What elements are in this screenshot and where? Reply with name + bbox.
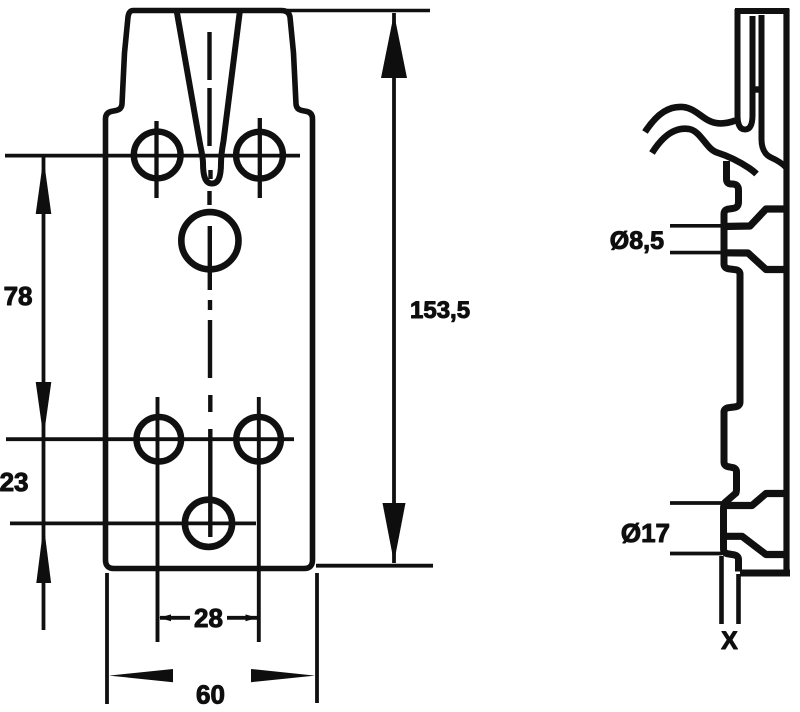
hole H4 lower-left circle bbox=[137, 417, 182, 462]
svg-text:Ø17: Ø17 bbox=[621, 518, 670, 548]
extension line top for 153,5 bbox=[283, 9, 430, 13]
arrow up at 524 bbox=[36, 525, 51, 583]
collar upper lip of hole 17 bbox=[723, 494, 787, 506]
datum line through top holes bbox=[5, 154, 300, 158]
hole H1 top-left circle bbox=[134, 132, 181, 179]
hole H3 middle circle bbox=[181, 212, 238, 269]
svg-text:28: 28 bbox=[194, 603, 223, 633]
collar lower lip of hole 8,5 bbox=[722, 253, 788, 270]
side view hem crossbar bbox=[751, 86, 764, 92]
arrow down at 562 bbox=[383, 503, 406, 563]
extension lines for 28 bbox=[158, 397, 259, 642]
leader lines for 17 bbox=[670, 503, 722, 554]
datum line through bottom hole bbox=[10, 522, 256, 526]
hole H6 bottom circle bbox=[185, 500, 232, 547]
side view hem fold left wall with U-return bbox=[738, 9, 753, 130]
side view spine with jogs bbox=[724, 161, 741, 572]
svg-text:23: 23 bbox=[0, 467, 29, 497]
hole H5 lower-right circle bbox=[236, 417, 281, 462]
side view top edge bbox=[735, 8, 789, 14]
thickness extension lines X bbox=[722, 556, 739, 624]
dimension line 78/23 vertical bbox=[42, 157, 46, 630]
svg-text:Ø8,5: Ø8,5 bbox=[610, 227, 664, 255]
extension lines for 60 bbox=[107, 573, 317, 704]
svg-text:153,5: 153,5 bbox=[410, 297, 470, 324]
side view inner fold line B with sweep bbox=[762, 15, 786, 167]
arrow down at 438 bbox=[36, 382, 52, 438]
arrow up at 13 bbox=[381, 14, 407, 79]
arrow up at 157 bbox=[36, 158, 52, 214]
arrow right at 315 for 60 bbox=[251, 669, 315, 682]
leader lines for 8,5 bbox=[670, 226, 722, 253]
svg-text:60: 60 bbox=[196, 680, 225, 710]
collar lower lip of hole 17 bbox=[724, 536, 786, 554]
arrow left at 109 for 60 bbox=[109, 669, 173, 682]
collar upper lip of hole 8,5 bbox=[722, 209, 788, 227]
side view lower tab surface (wavy) bbox=[652, 129, 757, 174]
svg-text:X: X bbox=[721, 627, 738, 655]
hole H2 vertical crosshair bbox=[258, 118, 262, 198]
plate outline (front view) bbox=[106, 11, 313, 569]
centerline (dashed) of plate bbox=[210, 32, 211, 537]
hole H2 top-right circle bbox=[236, 132, 283, 179]
hole H1 vertical crosshair bbox=[154, 121, 158, 198]
side view upper tab surface (wavy) bbox=[645, 107, 736, 132]
extension line bottom for 153,5 bbox=[316, 564, 433, 568]
dimension line 153,5 vertical bbox=[392, 13, 396, 563]
svg-text:78: 78 bbox=[4, 281, 33, 311]
side view bottom edge bbox=[740, 570, 790, 577]
dimension line 28 right segment with arrow bbox=[227, 616, 257, 620]
V-notch in plate top bbox=[177, 10, 241, 184]
dimension line 28 left segment with arrow bbox=[160, 616, 190, 620]
datum line through lower holes bbox=[6, 437, 294, 441]
side view outer right surface bbox=[783, 9, 789, 572]
